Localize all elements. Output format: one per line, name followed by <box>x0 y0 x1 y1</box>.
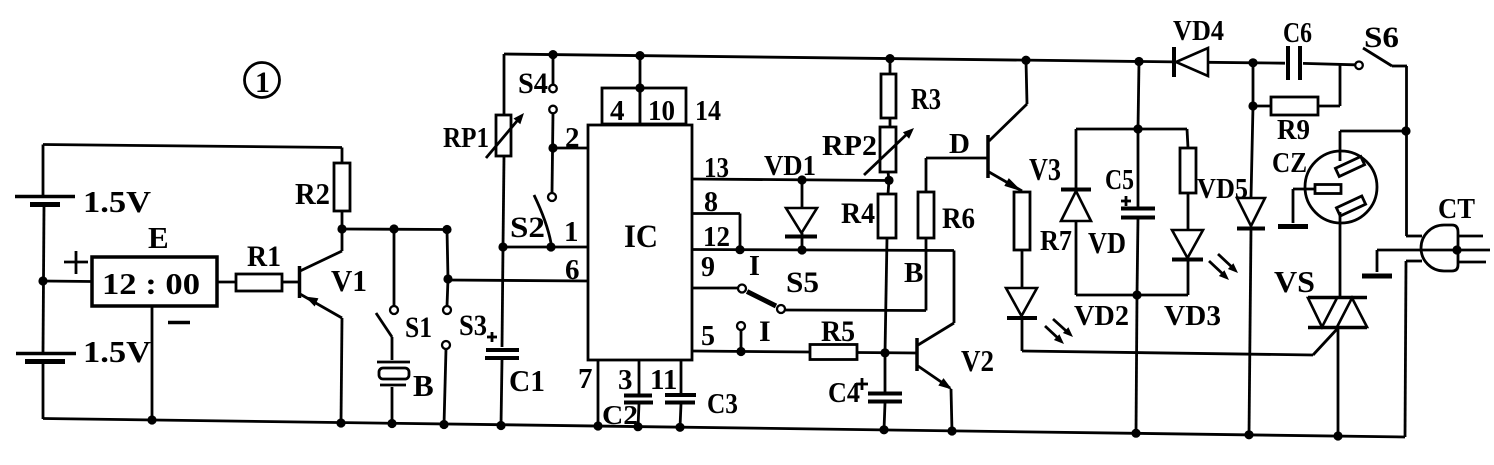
wire pin 1 <box>503 216 589 286</box>
battery 1.5V (lower) <box>16 334 152 369</box>
svg-text:VD2: VD2 <box>1074 301 1129 332</box>
wire pin 9 <box>692 251 760 288</box>
node box bottom <box>1132 290 1141 299</box>
svg-text:S4: S4 <box>518 67 548 100</box>
node battery midpoint <box>38 276 47 285</box>
node R9 branch <box>1248 101 1257 110</box>
node buzzer ground <box>387 419 396 428</box>
svg-text:C6: C6 <box>1283 17 1312 49</box>
wire R1 to V1 base <box>282 281 298 284</box>
resistor R1 <box>236 240 282 291</box>
resistor R3 <box>881 59 941 127</box>
resistor R5 <box>810 315 917 360</box>
wire top rail <box>504 54 1355 65</box>
switch S4 <box>518 55 557 193</box>
svg-text:VD3: VD3 <box>1164 301 1221 332</box>
svg-text:R7: R7 <box>1040 225 1072 257</box>
potentiometer RP1 <box>443 54 524 247</box>
svg-text:R5: R5 <box>821 315 855 348</box>
node RP2 pin13 <box>884 176 893 185</box>
svg-text:V2: V2 <box>961 343 994 378</box>
svg-text:11: 11 <box>650 364 677 396</box>
wire clock to R1 <box>217 281 236 284</box>
wire pin 12 <box>692 222 954 253</box>
rectifier box bottom line <box>1076 294 1188 297</box>
capacitor C5 <box>1105 129 1155 295</box>
node rail IC feed <box>635 51 644 60</box>
svg-text:RP1: RP1 <box>443 122 489 154</box>
svg-text:R4: R4 <box>841 197 875 230</box>
wire right edge lower <box>1405 236 1422 437</box>
svg-text:R2: R2 <box>295 176 330 211</box>
diode VD <box>1061 129 1126 295</box>
diode VD4 <box>1173 16 1224 77</box>
wire bottom rail <box>43 419 1405 438</box>
node V1 emitter ground <box>336 418 345 427</box>
node C1 ground <box>496 421 505 430</box>
wire pin 5 <box>692 321 810 352</box>
S5 position II contact <box>737 315 771 352</box>
svg-text:CZ: CZ <box>1272 147 1307 179</box>
node C2 ground <box>633 422 642 431</box>
svg-text:IC: IC <box>624 219 658 255</box>
node pin6 tee <box>443 274 452 283</box>
node pin2 tee <box>548 143 557 152</box>
LED VD2 <box>1006 288 1129 351</box>
svg-text:VD1: VD1 <box>764 151 816 182</box>
capacitor C3 on pin 11 <box>650 360 738 428</box>
wire pin 6 <box>448 280 589 281</box>
resistor R7 <box>1014 191 1072 288</box>
node S5 II pin5 <box>736 347 745 356</box>
wire pin 8 <box>692 187 740 250</box>
node pin7 ground <box>593 421 602 430</box>
node plug cord <box>1452 245 1461 254</box>
node R3 rail <box>885 54 894 63</box>
node RP1 pin1 <box>498 242 507 251</box>
svg-text:B: B <box>413 368 434 403</box>
svg-text:C2: C2 <box>602 400 638 430</box>
svg-text:12: 12 <box>703 222 730 253</box>
resistor R8 <box>1180 129 1196 230</box>
node V3 collector rail <box>1021 56 1030 65</box>
svg-text:R3: R3 <box>911 81 941 116</box>
svg-text:C4: C4 <box>828 377 860 409</box>
switch S2 <box>510 193 556 244</box>
node clock ground <box>147 415 156 424</box>
svg-text:1: 1 <box>564 216 579 248</box>
battery 1.5V (upper) <box>15 184 152 219</box>
node S3 ground <box>439 420 448 429</box>
IC body <box>588 125 692 360</box>
svg-text:CT: CT <box>1438 193 1475 225</box>
svg-text:3: 3 <box>618 364 633 396</box>
node box top <box>1133 124 1142 133</box>
pin 7 wire <box>578 360 598 427</box>
wire VS gate run <box>1022 328 1338 355</box>
wire collector row <box>342 228 448 231</box>
switch S6 <box>1355 21 1407 236</box>
svg-text:4: 4 <box>610 95 625 127</box>
wire top-left rail <box>43 145 342 148</box>
node V1 collector <box>337 224 346 233</box>
svg-text:C3: C3 <box>707 388 738 420</box>
svg-text:10: 10 <box>648 95 675 127</box>
svg-text:R9: R9 <box>1277 114 1310 146</box>
plug CT <box>1362 193 1490 276</box>
svg-text:C1: C1 <box>509 363 545 398</box>
svg-text:I: I <box>759 315 771 348</box>
wire pin 13 <box>692 152 890 184</box>
resistor R2 <box>295 148 350 230</box>
node R4 C4 V2 base <box>880 348 889 357</box>
svg-text:R1: R1 <box>247 240 281 273</box>
wire left edge vertical <box>43 145 44 420</box>
svg-text:S5: S5 <box>786 266 819 299</box>
node C5 ground <box>1131 429 1140 438</box>
resistor R4 <box>841 180 896 353</box>
svg-text:VD5: VD5 <box>1197 174 1248 205</box>
rectifier box top line <box>1076 128 1187 131</box>
capacitor C4 <box>828 353 902 430</box>
LED VD3 <box>1164 230 1238 332</box>
node right edge CZ tee <box>1401 126 1410 135</box>
node S2 pivot <box>546 242 555 251</box>
svg-text:I: I <box>749 251 760 282</box>
node pin box feed <box>635 83 644 92</box>
node VD4 C6 junction <box>1248 58 1257 67</box>
svg-text:VD4: VD4 <box>1173 16 1224 47</box>
svg-text:12 : 00: 12 : 00 <box>102 266 200 301</box>
svg-text:B: B <box>904 257 923 289</box>
svg-text:S2: S2 <box>510 211 545 244</box>
svg-text:5: 5 <box>701 321 715 352</box>
node S4 rail <box>548 50 557 59</box>
svg-text:S3: S3 <box>459 309 487 342</box>
node VD5 ground <box>1244 430 1253 439</box>
wire S3 drop <box>447 230 448 280</box>
capacitor C2 on pin 3 <box>602 360 653 430</box>
svg-text:V1: V1 <box>331 263 367 298</box>
switch S5 <box>738 266 926 313</box>
node rail C5 feed <box>1134 57 1143 66</box>
node VD1 anode <box>797 175 806 184</box>
node S1 branch <box>389 224 398 233</box>
svg-text:1: 1 <box>255 66 270 99</box>
svg-text:1.5V: 1.5V <box>83 334 152 369</box>
IC pin box 10 <box>640 88 686 127</box>
svg-text:R6: R6 <box>942 202 975 235</box>
diode VD1 <box>764 151 817 250</box>
buzzer B <box>377 362 434 424</box>
socket CZ <box>1272 131 1406 298</box>
capacitor C1 <box>485 247 545 426</box>
figure number 1 <box>245 63 280 100</box>
capacitor C6 <box>1283 17 1312 80</box>
svg-text:14: 14 <box>695 95 721 127</box>
switch S1 <box>376 229 432 360</box>
resistor R6 <box>904 158 975 311</box>
node C4 ground <box>879 425 888 434</box>
transistor V3 <box>926 60 1061 191</box>
wire box bottom to rail <box>1136 295 1137 434</box>
wire battery to clock <box>43 280 92 283</box>
svg-text:S1: S1 <box>405 311 432 344</box>
IC pin box 4 <box>602 88 640 127</box>
svg-text:VD: VD <box>1088 225 1126 260</box>
svg-text:8: 8 <box>704 187 718 218</box>
svg-text:1.5V: 1.5V <box>83 184 152 219</box>
svg-text:D: D <box>949 128 970 160</box>
svg-text:RP2: RP2 <box>822 130 877 162</box>
svg-text:13: 13 <box>704 152 729 184</box>
svg-text:9: 9 <box>701 252 715 283</box>
potentiometer RP2 <box>822 127 914 180</box>
clock module E <box>64 220 217 420</box>
node VD1 cathode <box>797 245 806 254</box>
transistor V2 <box>917 251 994 432</box>
node C3 ground <box>675 423 684 432</box>
triac VS <box>1274 264 1367 436</box>
node pin8-12 join <box>735 245 744 254</box>
svg-text:6: 6 <box>565 254 580 286</box>
pin 14 feed <box>640 56 721 127</box>
svg-text:E: E <box>148 220 169 255</box>
switch S3 <box>442 279 487 425</box>
svg-text:S6: S6 <box>1364 21 1399 54</box>
wire pin 2 <box>553 122 590 154</box>
svg-text:2: 2 <box>565 122 580 154</box>
svg-text:7: 7 <box>578 363 593 395</box>
node V2 emitter ground <box>947 426 956 435</box>
svg-text:C5: C5 <box>1105 164 1134 196</box>
resistor R9 <box>1253 63 1340 146</box>
node S3 branch top <box>442 225 451 234</box>
node VS ground <box>1333 431 1342 440</box>
svg-text:VS: VS <box>1274 264 1315 299</box>
wire rail to C5 box <box>1138 62 1139 130</box>
svg-text:V3: V3 <box>1029 151 1061 187</box>
transistor V1 <box>300 229 368 423</box>
diode VD5 <box>1197 106 1265 435</box>
